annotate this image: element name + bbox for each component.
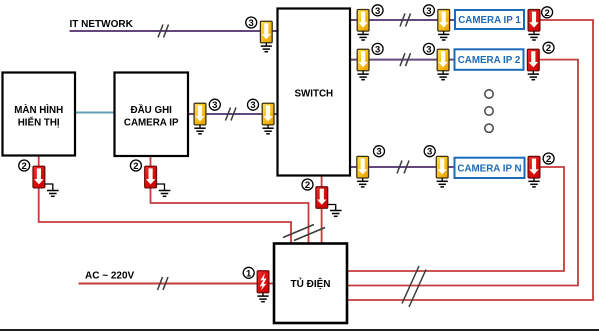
- wire: power feed CAMERA IP 1 (red): [348, 20, 593, 300]
- ground: [358, 71, 369, 80]
- svg-text:3: 3: [249, 18, 254, 29]
- ground: [257, 293, 268, 302]
- label circle 2 at SWITCH: [302, 179, 313, 191]
- svg-text:3: 3: [375, 6, 380, 17]
- ground elbow SWITCH arrester: [328, 205, 336, 211]
- surge arrester type2 at CAMERA IP N: [528, 156, 540, 178]
- ground: [261, 43, 272, 52]
- svg-text:CAMERA IP 2: CAMERA IP 2: [458, 55, 521, 66]
- label circle 3 cameraN at SWITCH: [374, 146, 385, 158]
- break marks: AC mains line: [158, 277, 169, 290]
- ground: [528, 71, 539, 80]
- surge arrester type3 at CAMERA IP N: [436, 156, 448, 178]
- break marks: DAU GHI line: [226, 108, 237, 121]
- ground elbow MAN HINH arrester: [45, 184, 53, 191]
- surge arrester type3 cameraN at SWITCH: [357, 156, 369, 178]
- surge arrester type2 under SWITCH: [316, 187, 328, 209]
- svg-text:CAMERA IP: CAMERA IP: [124, 117, 179, 128]
- node: MAN HINH HIEN THI (display monitor): [3, 73, 76, 156]
- wire: MAN HINH power drop to TU DIEN (red): [39, 156, 291, 243]
- wire: DAU GHI to SWITCH (purple): [189, 113, 277, 115]
- label circle 3 at SWITCH input: [248, 99, 259, 111]
- break marks: power drops above TU DIEN: [283, 225, 325, 241]
- label circle 3 camera2 at SWITCH: [372, 43, 383, 55]
- svg-text:CAMERA IP 1: CAMERA IP 1: [458, 15, 521, 26]
- svg-text:CAMERA IP N: CAMERA IP N: [457, 164, 521, 175]
- surge arrester type3 at DAU GHI output: [194, 103, 206, 125]
- break marks: IT NETWORK line: [158, 25, 169, 38]
- svg-text:2: 2: [133, 161, 138, 172]
- break marks: camera N line: [397, 161, 409, 174]
- wire: power feed CAMERA IP N (red): [348, 167, 564, 271]
- svg-text:MÀN HÌNH: MÀN HÌNH: [14, 104, 63, 116]
- ground: [438, 31, 449, 40]
- surge arrester type3 camera2 at SWITCH: [357, 49, 369, 71]
- svg-text:ĐẦU GHI: ĐẦU GHI: [131, 105, 173, 116]
- wire: SWITCH to CAMERA IP N (purple): [351, 166, 455, 168]
- break marks: camera 2 line: [400, 53, 411, 66]
- surge arrester type3 at CAMERA IP 2: [437, 49, 449, 71]
- ground: [437, 178, 448, 187]
- label circle 2 at MAN HINH: [19, 160, 30, 172]
- label circle 2 at DAU GHI: [130, 160, 141, 172]
- label circle 3 at CAMERA IP 1: [423, 5, 434, 17]
- svg-text:3: 3: [426, 6, 431, 17]
- wire: AC 220V mains feed (red): [79, 283, 274, 285]
- wire: SWITCH to CAMERA IP 2 (purple): [351, 59, 455, 61]
- label circle 3 on IT line: [246, 17, 257, 29]
- node: CAMERA IP N: [455, 158, 525, 178]
- label circle 3 at DAU GHI output: [209, 99, 220, 111]
- surge arrester type1 on AC mains (lightning): [257, 271, 269, 293]
- label circle 2 at CAMERA IP N: [543, 153, 554, 165]
- svg-text:HIỂN THỊ: HIỂN THỊ: [18, 116, 60, 128]
- label circle 3 camera1 at SWITCH: [372, 5, 383, 17]
- svg-text:3: 3: [376, 147, 381, 158]
- svg-text:3: 3: [427, 147, 432, 158]
- wire: power feed CAMERA IP 2 (red): [348, 60, 578, 286]
- svg-text:2: 2: [22, 161, 27, 172]
- wire: SWITCH power drop to TU DIEN (red): [321, 177, 323, 244]
- svg-text:3: 3: [212, 100, 217, 111]
- svg-text:AC ~ 220V: AC ~ 220V: [85, 271, 135, 282]
- ground: [194, 125, 205, 134]
- label circle 2 at CAMERA IP 2: [543, 42, 554, 54]
- surge arrester type2 at CAMERA IP 2: [527, 49, 539, 71]
- ground: [263, 125, 274, 134]
- svg-text:3: 3: [250, 100, 255, 111]
- surge arrester type3 on IT NETWORK line: [260, 21, 272, 43]
- label circle 3 at CAMERA IP 2: [423, 43, 434, 55]
- node: DAU GHI CAMERA IP (NVR recorder): [115, 73, 189, 157]
- wire: IT NETWORK to SWITCH (purple): [70, 30, 277, 32]
- wire: DAU GHI power drop to TU DIEN (red): [151, 157, 309, 244]
- label circle 1 at AC mains: [243, 267, 254, 279]
- svg-text:TỦ ĐIỆN: TỦ ĐIỆN: [291, 277, 331, 290]
- svg-text:3: 3: [426, 44, 431, 55]
- svg-text:2: 2: [546, 43, 551, 54]
- ground: [528, 31, 539, 40]
- surge arrester type2 under MAN HINH: [33, 166, 45, 188]
- svg-text:SWITCH: SWITCH: [294, 89, 333, 100]
- ellipsis dots between camera rows: [485, 90, 493, 133]
- break marks: camera power lines right of TU DIEN: [402, 266, 426, 307]
- ground: [528, 178, 539, 187]
- break marks: camera 1 line: [400, 14, 411, 27]
- wire: SWITCH to CAMERA IP 1 (purple): [351, 19, 455, 21]
- surge arrester type3 camera1 at SWITCH: [357, 9, 369, 31]
- svg-text:2: 2: [544, 8, 549, 19]
- surge arrester type2 under DAU GHI: [145, 166, 157, 188]
- surge arrester type2 at CAMERA IP 1: [528, 9, 540, 31]
- ground: [358, 31, 369, 40]
- node: CAMERA IP 1: [455, 10, 524, 29]
- node: TU DIEN (power cabinet): [274, 244, 347, 324]
- surge arrester type3 at CAMERA IP 1: [438, 9, 450, 31]
- label circle 3 at CAMERA IP N: [424, 146, 435, 158]
- label circle 2 at CAMERA IP 1: [542, 7, 553, 19]
- surge arrester type3 at SWITCH input: [262, 103, 274, 125]
- ground: [357, 178, 368, 187]
- ground elbow DAU GHI arrester: [156, 184, 164, 191]
- ground: [438, 71, 449, 80]
- svg-text:2: 2: [305, 180, 310, 191]
- svg-text:1: 1: [246, 268, 252, 279]
- wire: MAN HINH to DAU GHI (cyan video): [76, 112, 115, 114]
- svg-text:3: 3: [375, 44, 380, 55]
- node: CAMERA IP 2: [455, 49, 524, 70]
- svg-text:2: 2: [546, 154, 551, 165]
- node: SWITCH: [278, 9, 351, 176]
- svg-text:IT NETWORK: IT NETWORK: [70, 19, 134, 30]
- bottom border line: [0, 329, 599, 331]
